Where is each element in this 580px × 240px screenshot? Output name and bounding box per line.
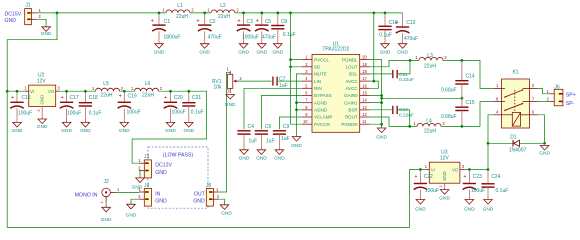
svg-text:VI: VI: [431, 167, 435, 172]
svg-text:C17: C17: [70, 95, 79, 101]
label IN at J4: [155, 191, 160, 197]
svg-text:MUTE: MUTE: [314, 72, 327, 77]
svg-text:22uH: 22uH: [142, 92, 154, 98]
svg-text:470uF: 470uF: [262, 35, 276, 41]
svg-text:GAIN1: GAIN1: [344, 100, 358, 105]
label GND at J1: [5, 18, 17, 24]
svg-text:GND: GND: [154, 49, 165, 55]
svg-text:8: 8: [496, 96, 499, 101]
svg-text:12V: 12V: [440, 156, 450, 162]
svg-text:12V: 12V: [37, 79, 47, 85]
wire right ground bus: [370, 60, 382, 128]
svg-text:GND: GND: [155, 170, 167, 176]
svg-text:7: 7: [532, 96, 535, 101]
svg-text:GND: GND: [397, 49, 408, 55]
inductor L2: [207, 3, 239, 20]
junction AVCC pin17: [372, 80, 375, 83]
svg-text:1: 1: [496, 83, 499, 88]
capacitor C13: [395, 13, 418, 44]
svg-text:GND: GND: [380, 49, 391, 55]
wire J3 pin2 to ground: [139, 171, 140, 178]
svg-text:2: 2: [100, 201, 104, 203]
svg-text:15: 15: [362, 91, 367, 96]
ground at C18: [80, 122, 91, 134]
svg-text:L4: L4: [426, 119, 432, 125]
junction AVCC top: [372, 12, 375, 15]
ground under U1 right: [376, 128, 387, 140]
capacitor C18: [79, 91, 102, 122]
svg-text:1N4007: 1N4007: [509, 148, 527, 154]
svg-text:PVCCR: PVCCR: [314, 122, 331, 127]
label GND at J5: [193, 199, 205, 205]
svg-text:+: +: [395, 20, 398, 26]
svg-text:2: 2: [191, 8, 194, 13]
svg-text:100uF: 100uF: [425, 188, 439, 194]
svg-text:2: 2: [439, 185, 443, 187]
regulator U2: [24, 73, 60, 119]
junction pin8: [295, 108, 298, 111]
wire ROUT: [370, 102, 494, 127]
ground at C6: [256, 150, 267, 162]
svg-text:1: 1: [92, 86, 95, 91]
svg-text:C11: C11: [399, 72, 408, 78]
ground at J2: [101, 207, 112, 223]
svg-text:4: 4: [496, 110, 499, 115]
wire BYPASS pin6 to C6: [261, 96, 302, 130]
svg-text:0.1uF: 0.1uF: [283, 32, 296, 38]
svg-text:13: 13: [362, 105, 367, 110]
junction at J1 pin1: [56, 12, 59, 15]
wire K1 pin7 to J6: [538, 101, 550, 103]
svg-text:16: 16: [362, 83, 367, 88]
svg-text:100uF: 100uF: [67, 110, 81, 116]
svg-text:GND: GND: [119, 128, 130, 134]
svg-text:GND: GND: [539, 150, 550, 156]
ground at J5 pin2: [220, 205, 232, 217]
junction C24 coil: [487, 168, 490, 171]
svg-text:2: 2: [444, 55, 447, 60]
svg-text:1: 1: [24, 86, 27, 91]
wire C12 to ROUT: [398, 110, 410, 127]
junction C15 bottom: [461, 125, 464, 128]
svg-text:BYPASS: BYPASS: [314, 93, 332, 98]
svg-text:C22: C22: [424, 174, 433, 180]
svg-text:2: 2: [217, 194, 220, 199]
svg-text:0.22uF: 0.22uF: [399, 113, 414, 119]
svg-text:PVCCL: PVCCL: [314, 57, 330, 62]
svg-text:2: 2: [37, 109, 41, 111]
svg-text:GND: GND: [272, 49, 283, 55]
svg-text:GND: GND: [165, 128, 176, 134]
capacitor C9: [273, 124, 290, 150]
svg-text:D1: D1: [510, 134, 517, 140]
svg-text:+: +: [61, 95, 64, 101]
wire J2 to J4: [116, 191, 140, 193]
svg-text:RIN: RIN: [314, 86, 322, 91]
svg-text:(LOW PASS): (LOW PASS): [163, 152, 193, 158]
junction C2: [203, 12, 206, 15]
svg-text:C9: C9: [283, 124, 290, 130]
svg-text:12: 12: [362, 112, 367, 117]
svg-text:GAIN0: GAIN0: [344, 93, 358, 98]
svg-text:DC15V: DC15V: [5, 12, 22, 18]
wire LOUT: [370, 60, 494, 88]
label DC12V: [155, 163, 172, 169]
svg-text:J3: J3: [144, 154, 150, 160]
svg-text:GND: GND: [80, 128, 91, 134]
svg-text:GND: GND: [221, 211, 232, 217]
svg-text:0.1uF: 0.1uF: [496, 188, 509, 194]
svg-text:2: 2: [442, 121, 445, 126]
inductor L4: [413, 119, 445, 135]
junction 15V to U2 branch: [6, 90, 9, 93]
capacitor C10: [378, 13, 397, 44]
label GND at J3: [155, 170, 167, 176]
wire BSR to C12: [370, 109, 392, 111]
svg-text:1: 1: [138, 158, 141, 163]
svg-text:17: 17: [362, 76, 367, 81]
svg-text:AVCC: AVCC: [346, 79, 359, 84]
svg-text:1: 1: [39, 8, 42, 13]
ground at C13: [397, 44, 408, 56]
svg-text:J1: J1: [25, 3, 31, 9]
label SP-: [566, 101, 575, 107]
junction pin2: [289, 65, 292, 68]
svg-text:+: +: [164, 95, 167, 101]
svg-text:2: 2: [160, 86, 163, 91]
wire 15V feed down-left: [7, 13, 425, 228]
svg-text:100uF: 100uF: [172, 109, 186, 115]
svg-text:GND: GND: [126, 212, 137, 218]
svg-text:C5: C5: [265, 19, 272, 25]
svg-text:C4: C4: [248, 124, 255, 130]
svg-text:22uH: 22uH: [218, 14, 230, 20]
capacitor C2: [196, 13, 221, 44]
ground at C21: [183, 122, 194, 134]
svg-text:4: 4: [305, 76, 308, 81]
svg-text:VO: VO: [452, 167, 459, 172]
ground at C20: [165, 122, 176, 134]
svg-text:2: 2: [305, 62, 308, 67]
svg-text:J4: J4: [144, 183, 150, 189]
svg-text:C7: C7: [279, 76, 286, 82]
ground at C22: [415, 200, 426, 213]
ground at C24: [483, 200, 494, 213]
svg-text:LIN: LIN: [314, 79, 321, 84]
svg-text:GND: GND: [101, 217, 112, 223]
ground at C3: [238, 44, 249, 56]
svg-text:+: +: [11, 95, 14, 101]
svg-text:AGND: AGND: [314, 100, 328, 105]
svg-text:GND: GND: [238, 49, 249, 55]
capacitor C1: [151, 13, 181, 44]
svg-text:GND: GND: [37, 124, 48, 130]
svg-text:6: 6: [305, 91, 308, 96]
wire K1 pin2 to J6: [538, 88, 550, 93]
regulator U3: [425, 150, 465, 190]
svg-text:GND: GND: [40, 95, 45, 105]
wire C7 to LIN pin4: [278, 80, 302, 82]
svg-text:3: 3: [462, 164, 465, 169]
capacitor C5: [255, 13, 276, 44]
svg-text:+: +: [237, 19, 240, 25]
svg-text:GND: GND: [376, 134, 387, 140]
svg-text:C2: C2: [209, 19, 216, 25]
inductor L6: [131, 81, 163, 98]
label LOW PASS: [163, 152, 193, 158]
wire J4 pin2 to ground: [131, 199, 139, 204]
svg-text:1: 1: [547, 89, 550, 94]
svg-text:3: 3: [227, 89, 230, 94]
ground at U2: [37, 119, 48, 130]
svg-text:2: 2: [138, 165, 141, 170]
ground at C4: [239, 150, 250, 162]
capacitor C12: [393, 106, 414, 119]
junction ROUT L4: [408, 125, 411, 128]
svg-text:C6: C6: [265, 124, 272, 130]
svg-text:0.22uF: 0.22uF: [399, 77, 414, 83]
svg-text:ROUT: ROUT: [345, 115, 358, 120]
relay K1: [493, 70, 537, 128]
svg-text:L2: L2: [220, 3, 226, 9]
svg-text:VI: VI: [30, 89, 34, 94]
wire K1 pin6 down: [538, 115, 545, 144]
low pass dashed box: [148, 147, 208, 208]
svg-text:C19: C19: [128, 93, 137, 99]
svg-text:SP-: SP-: [566, 101, 575, 107]
svg-text:100uF: 100uF: [471, 188, 485, 194]
svg-text:1: 1: [227, 66, 230, 71]
svg-text:BSL: BSL: [349, 72, 358, 77]
capacitor C21: [182, 91, 203, 122]
wire coil 12V feed: [488, 115, 493, 170]
junction C19: [123, 90, 126, 93]
capacitor C15: [441, 98, 475, 126]
svg-text:C16: C16: [22, 95, 31, 101]
junction C21: [187, 90, 190, 93]
ground at C9: [274, 150, 285, 162]
svg-text:+: +: [119, 93, 122, 99]
ground at J1 pin2: [41, 27, 52, 37]
svg-text:SP+: SP+: [566, 93, 576, 99]
svg-text:GND: GND: [483, 207, 494, 213]
wire J1 pin2 to ground: [37, 19, 47, 27]
svg-text:2: 2: [121, 86, 124, 91]
svg-text:5: 5: [305, 83, 308, 88]
svg-text:C14: C14: [466, 73, 475, 79]
junction C17: [65, 90, 68, 93]
inductor L3: [415, 53, 447, 70]
ground at relay: [539, 146, 550, 157]
svg-text:C21: C21: [192, 95, 201, 101]
ground at C8: [272, 44, 283, 56]
svg-text:22uH: 22uH: [424, 128, 436, 134]
label MONO IN: [75, 192, 98, 198]
connector J2: [100, 179, 120, 204]
svg-text:1800uF: 1800uF: [164, 35, 181, 41]
junction C5: [260, 12, 263, 15]
svg-text:6: 6: [532, 110, 535, 115]
svg-text:BSR: BSR: [348, 108, 358, 113]
wire filter mid: [382, 97, 462, 99]
ground at C5: [256, 44, 267, 56]
svg-text:+: +: [196, 19, 199, 25]
wire branch to U2 VI: [7, 90, 25, 92]
svg-text:2: 2: [240, 76, 243, 81]
junction C14 top: [461, 59, 464, 62]
svg-text:C24: C24: [491, 174, 500, 180]
junction C20: [169, 90, 172, 93]
svg-text:GND: GND: [256, 155, 267, 161]
wire AGND bus: [297, 74, 303, 137]
svg-text:0.1uF: 0.1uF: [191, 109, 204, 115]
svg-text:GND: GND: [199, 49, 210, 55]
svg-text:PGNDR: PGNDR: [341, 122, 358, 127]
connector J1: [25, 3, 42, 25]
capacitor C11: [393, 70, 414, 83]
capacitor C17: [60, 91, 81, 122]
capacitor C16: [10, 91, 32, 122]
wire RV1 wiper to C7: [239, 80, 272, 82]
junction LOUT C11: [409, 59, 412, 62]
svg-text:SD: SD: [314, 64, 321, 69]
svg-text:100uF: 100uF: [127, 109, 141, 115]
wire AVCC feed: [370, 13, 379, 88]
junction C18: [84, 90, 87, 93]
svg-text:1uF: 1uF: [249, 138, 258, 144]
svg-text:GND: GND: [442, 171, 447, 181]
svg-text:22uH: 22uH: [424, 64, 436, 70]
junction C3: [242, 12, 245, 15]
svg-text:GND: GND: [256, 49, 267, 55]
svg-text:GND: GND: [183, 128, 194, 134]
junction D1 cathode-gnd: [543, 142, 546, 145]
svg-text:C8: C8: [281, 19, 288, 25]
svg-text:2: 2: [236, 8, 239, 13]
ground at C23: [464, 200, 475, 213]
svg-text:18: 18: [362, 69, 367, 74]
label DC15V: [5, 12, 22, 18]
svg-text:MONO IN: MONO IN: [75, 192, 98, 198]
svg-text:11: 11: [362, 119, 367, 124]
svg-text:3: 3: [58, 86, 61, 91]
svg-text:GND: GND: [5, 18, 17, 24]
svg-text:470uF: 470uF: [404, 36, 418, 42]
ground at C10: [380, 44, 391, 56]
svg-text:10k: 10k: [213, 84, 222, 90]
wire VCLAMP pin9 to C9: [279, 117, 302, 129]
junction pin1: [289, 58, 292, 61]
svg-text:GND: GND: [291, 143, 302, 149]
inductor L5: [92, 81, 124, 98]
svg-text:J6: J6: [554, 84, 560, 90]
svg-text:AGND: AGND: [314, 108, 328, 113]
svg-text:2: 2: [39, 14, 42, 19]
capacitor C7: [273, 76, 288, 89]
svg-text:1: 1: [305, 55, 308, 60]
junction pgndr: [380, 123, 383, 126]
wire J5 pin2 to ground: [219, 199, 225, 205]
junction C1: [158, 12, 161, 15]
svg-text:L6: L6: [145, 81, 151, 87]
svg-text:+: +: [414, 174, 417, 180]
ground at C17: [61, 122, 72, 134]
junction C10: [384, 12, 387, 15]
junction C16: [16, 90, 19, 93]
ground under U1 left: [291, 137, 302, 150]
ground at C2: [199, 44, 210, 56]
svg-text:+: +: [151, 19, 154, 25]
label SP+: [566, 93, 576, 99]
svg-text:22uH: 22uH: [176, 14, 188, 20]
svg-text:1: 1: [425, 164, 428, 169]
svg-text:2: 2: [547, 97, 550, 102]
svg-text:+: +: [463, 174, 466, 180]
svg-text:C18: C18: [89, 95, 98, 101]
wire U3 VO rail: [464, 169, 488, 171]
svg-text:J5: J5: [206, 183, 212, 189]
svg-text:19: 19: [362, 62, 367, 67]
junction gain0: [380, 94, 383, 97]
svg-text:C13: C13: [406, 20, 415, 26]
svg-text:GND: GND: [41, 31, 52, 37]
connector J6: [547, 84, 563, 105]
connector J5: [206, 183, 220, 206]
junction gain1: [380, 101, 383, 104]
svg-text:C1: C1: [164, 19, 171, 25]
wire 15V rail: [37, 12, 403, 14]
wire C11 to LOUT: [398, 60, 410, 74]
svg-text:L5: L5: [103, 81, 109, 87]
svg-text:0.1uF: 0.1uF: [89, 110, 102, 116]
svg-text:0.68uF: 0.68uF: [441, 114, 457, 120]
junction C14 bottom: [461, 97, 464, 100]
connector J4: [138, 183, 151, 206]
svg-text:TPA3122D2: TPA3122D2: [322, 47, 349, 53]
svg-text:GND: GND: [225, 102, 236, 108]
svg-text:LOUT: LOUT: [346, 64, 358, 69]
svg-text:2: 2: [532, 83, 535, 88]
capacitor C23: [463, 170, 486, 200]
svg-text:1uF: 1uF: [266, 138, 275, 144]
svg-text:GND: GND: [12, 128, 23, 134]
capacitor C6: [255, 124, 275, 150]
wire 12V rail: [60, 91, 207, 163]
svg-text:10: 10: [303, 119, 308, 124]
label OUT at J5: [194, 191, 206, 197]
svg-text:C23: C23: [473, 174, 482, 180]
svg-text:7: 7: [305, 98, 308, 103]
svg-text:L3: L3: [427, 53, 433, 59]
svg-text:GND: GND: [439, 195, 450, 201]
svg-text:1: 1: [216, 187, 219, 192]
svg-text:VCLAMP: VCLAMP: [314, 115, 333, 120]
capacitor C8: [271, 13, 295, 44]
svg-text:IN: IN: [155, 191, 160, 197]
svg-text:+: +: [256, 19, 259, 25]
wire BSL to C11: [370, 73, 392, 75]
wire J5 to RV1: [219, 72, 231, 192]
junction pin7: [295, 101, 298, 104]
svg-text:GND: GND: [193, 199, 205, 205]
connector J3: [138, 154, 151, 178]
svg-text:L1: L1: [177, 3, 183, 9]
op-amp U1 TPA3122D2: [302, 41, 370, 132]
wire PVCC supply drop: [291, 13, 303, 124]
capacitor C19: [118, 91, 141, 122]
capacitor C3: [237, 13, 259, 44]
ground at RV1: [225, 95, 236, 109]
